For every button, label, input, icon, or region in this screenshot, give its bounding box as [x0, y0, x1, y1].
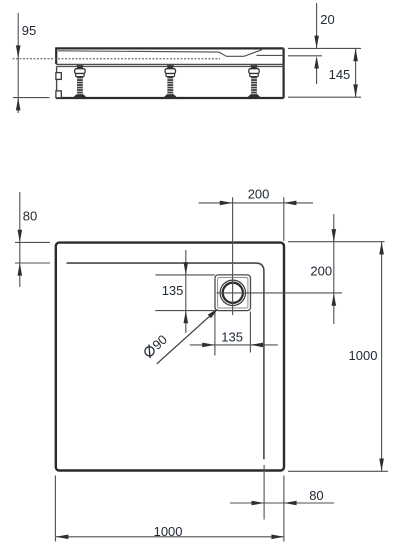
svg-text:80: 80 [23, 208, 37, 223]
svg-text:200: 200 [248, 187, 270, 202]
svg-text:90: 90 [149, 332, 170, 353]
svg-text:1000: 1000 [154, 524, 183, 539]
svg-text:95: 95 [22, 23, 36, 38]
svg-text:80: 80 [309, 488, 323, 503]
svg-text:200: 200 [310, 263, 332, 278]
svg-text:145: 145 [329, 67, 351, 82]
svg-text:1000: 1000 [349, 348, 378, 363]
svg-text:135: 135 [162, 283, 184, 298]
svg-text:135: 135 [221, 329, 243, 344]
svg-text:20: 20 [320, 12, 334, 27]
